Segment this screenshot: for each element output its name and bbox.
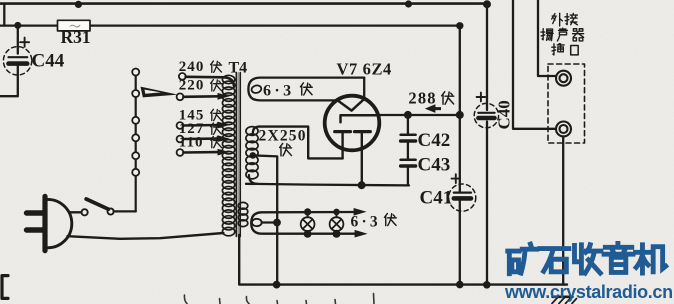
node A: junction of C44 branch: [14, 22, 21, 29]
tube V7 envelope circle: [325, 96, 380, 151]
svg-text:6·3: 6·3: [351, 213, 381, 230]
transformer heater winding 6.3V: [238, 202, 248, 226]
wire: vertical from R31 rail down to 288V node and C41: [459, 26, 461, 285]
tube cathode bar with hook: [341, 115, 380, 122]
node dot where R31 rail meets right vertical: [456, 22, 463, 29]
node dot at C42 branch: [404, 111, 412, 119]
node dot at bottom rail (C41 leg): [456, 281, 464, 289]
wire: between C42 and C43: [407, 143, 409, 159]
node dot at top rail right corner: [483, 0, 491, 8]
wire: top B+ rail: [0, 2, 489, 5]
crop remnant bracket at left edge: [2, 276, 8, 299]
wire: center tap down to ground rail: [253, 155, 277, 284]
capacitor C41 (electrolytic, + mark): [449, 174, 476, 211]
transformer HV winding 2X250V: [246, 127, 258, 179]
tap 240V: terminal, wire into winding top, label: [179, 59, 234, 86]
tap 220V: terminal, wire and label: [177, 78, 230, 101]
wire: jack lower terminal to ground: [562, 136, 564, 284]
selector terminal 2: [132, 90, 139, 97]
tap 145V: terminal, wire and label: [177, 107, 230, 129]
wire: C44 top lead: [17, 25, 19, 53]
node dot 288V at right vertical: [456, 111, 464, 119]
svg-text:www.crystalradio.cn: www.crystalradio.cn: [504, 282, 673, 302]
heater winding center terminal: [252, 219, 262, 226]
node dot on top rail (left): [75, 1, 82, 8]
capacitor C42: [401, 134, 416, 137]
svg-text:T4: T4: [229, 60, 248, 77]
arrow: heater wire bottom: [355, 230, 368, 238]
node dot heater center tap junction: [273, 219, 281, 227]
wire: plate 2 lead down to return line: [361, 132, 363, 186]
pilot lamp 2: [330, 212, 344, 234]
tube anode plate 2: [355, 130, 371, 133]
capacitor C44 (electrolytic, + mark): [3, 38, 31, 75]
node dot center tap at ground rail: [273, 281, 281, 289]
wire: vertical from top rail down through C40 to bottom rail: [486, 4, 488, 285]
resistor R31: [58, 20, 91, 31]
svg-text:R31: R31: [61, 27, 91, 47]
node dot on top rail (middle): [405, 0, 412, 7]
wire: HV winding bottom rounded corner: [249, 175, 258, 184]
wire: plate 1 lead: [341, 132, 343, 159]
svg-text:C44: C44: [32, 51, 65, 72]
tube anode plate 1: [335, 130, 351, 133]
wire: second rail through R31: [0, 24, 460, 26]
label: external speaker jack (3 lines CJK): [541, 13, 584, 55]
svg-text:V7 6Z4: V7 6Z4: [337, 59, 392, 78]
svg-text:110: 110: [179, 134, 204, 150]
crop remnant tick marks along bottom: [184, 294, 374, 304]
jack terminal (lower): [556, 122, 571, 137]
tap 110V: terminal, wire and label: [177, 134, 230, 156]
wire: vertical to speaker jack upper terminal: [538, 0, 556, 76]
svg-text:6·3: 6·3: [263, 83, 295, 100]
ground symbol: [552, 297, 577, 304]
wire: HV winding bottom return line: [246, 184, 409, 186]
HV center tap terminal: [250, 152, 257, 159]
svg-text:240: 240: [179, 59, 205, 75]
wire: 288V output rail from tube cathode: [379, 114, 460, 116]
wire: primary bottom lead to mains: [68, 233, 224, 239]
node dot at bottom rail (C40 leg): [483, 281, 491, 289]
mains plug: [27, 196, 72, 250]
svg-text:C41: C41: [420, 188, 453, 209]
watermark: crystalradio logo text: [508, 244, 666, 274]
selector terminal 5: [132, 152, 139, 159]
jack terminal (upper): [556, 71, 571, 86]
capacitor C43: [401, 159, 416, 162]
arrow: heater wire top: [354, 208, 367, 216]
capacitor C40 (electrolytic, + mark): [474, 93, 498, 128]
selector wiper arrow: [141, 87, 178, 98]
wire: C44 bottom lead, corner to left edge: [0, 66, 18, 96]
speaker jack dashed box: [548, 64, 585, 143]
transformer T4 core: [236, 73, 241, 237]
wire: C42 top lead: [407, 115, 409, 134]
pilot lamp 1: [301, 212, 315, 234]
selector terminal 4: [132, 134, 139, 141]
wire: stepped connection HV winding top to plate 1: [253, 127, 343, 159]
wire: heater pair hairpin: [251, 212, 355, 234]
selector terminal 6: [132, 169, 139, 176]
wire: selector column vertical: [135, 72, 137, 211]
svg-text:C43: C43: [418, 155, 451, 176]
terminal of 6.3V winding: [251, 84, 262, 94]
wire: filament lead to 6.3V winding: [363, 78, 365, 99]
switch S (open): [82, 199, 114, 215]
selector terminal 3: [132, 117, 139, 124]
tap 127V: terminal, wire and label: [177, 121, 230, 142]
selector terminal 1: [132, 69, 139, 76]
svg-text:C40: C40: [495, 100, 514, 129]
wire: vertical to speaker jack lower terminal: [513, 0, 556, 129]
svg-text:220: 220: [179, 78, 205, 94]
wire: heater center tap link: [262, 221, 274, 223]
wire: 6.3V filament pair (hairpin with label): [248, 78, 364, 101]
tube filament (inverted V): [339, 99, 364, 111]
wire: switch to selector column: [114, 210, 136, 212]
wire: plug to switch: [69, 211, 81, 213]
wire: ground/common bottom rail: [239, 235, 567, 285]
svg-text:288: 288: [408, 89, 436, 108]
wire: C43 bottom lead down to winding return line: [407, 168, 409, 186]
svg-text:2X250: 2X250: [259, 128, 307, 145]
wire: left vertical joining rails: [3, 4, 5, 26]
svg-text:C42: C42: [418, 130, 451, 151]
transformer primary winding: [222, 75, 234, 236]
node dot where plate lead meets return line: [358, 181, 366, 189]
